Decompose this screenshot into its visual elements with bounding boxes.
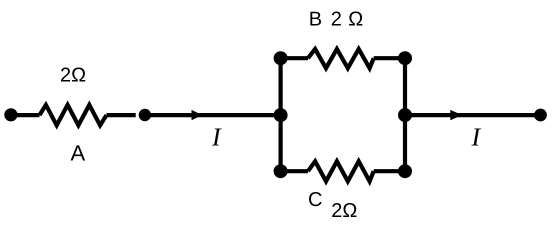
svg-text:C: C [308,189,322,211]
svg-text:A: A [71,140,86,165]
svg-text:I: I [471,123,482,152]
svg-text:2Ω: 2Ω [331,200,357,221]
svg-text:I: I [211,122,222,151]
svg-text:B: B [309,9,322,31]
svg-text:Ω: Ω [348,9,363,31]
svg-text:2: 2 [331,9,342,31]
svg-text:2Ω: 2Ω [60,65,86,87]
